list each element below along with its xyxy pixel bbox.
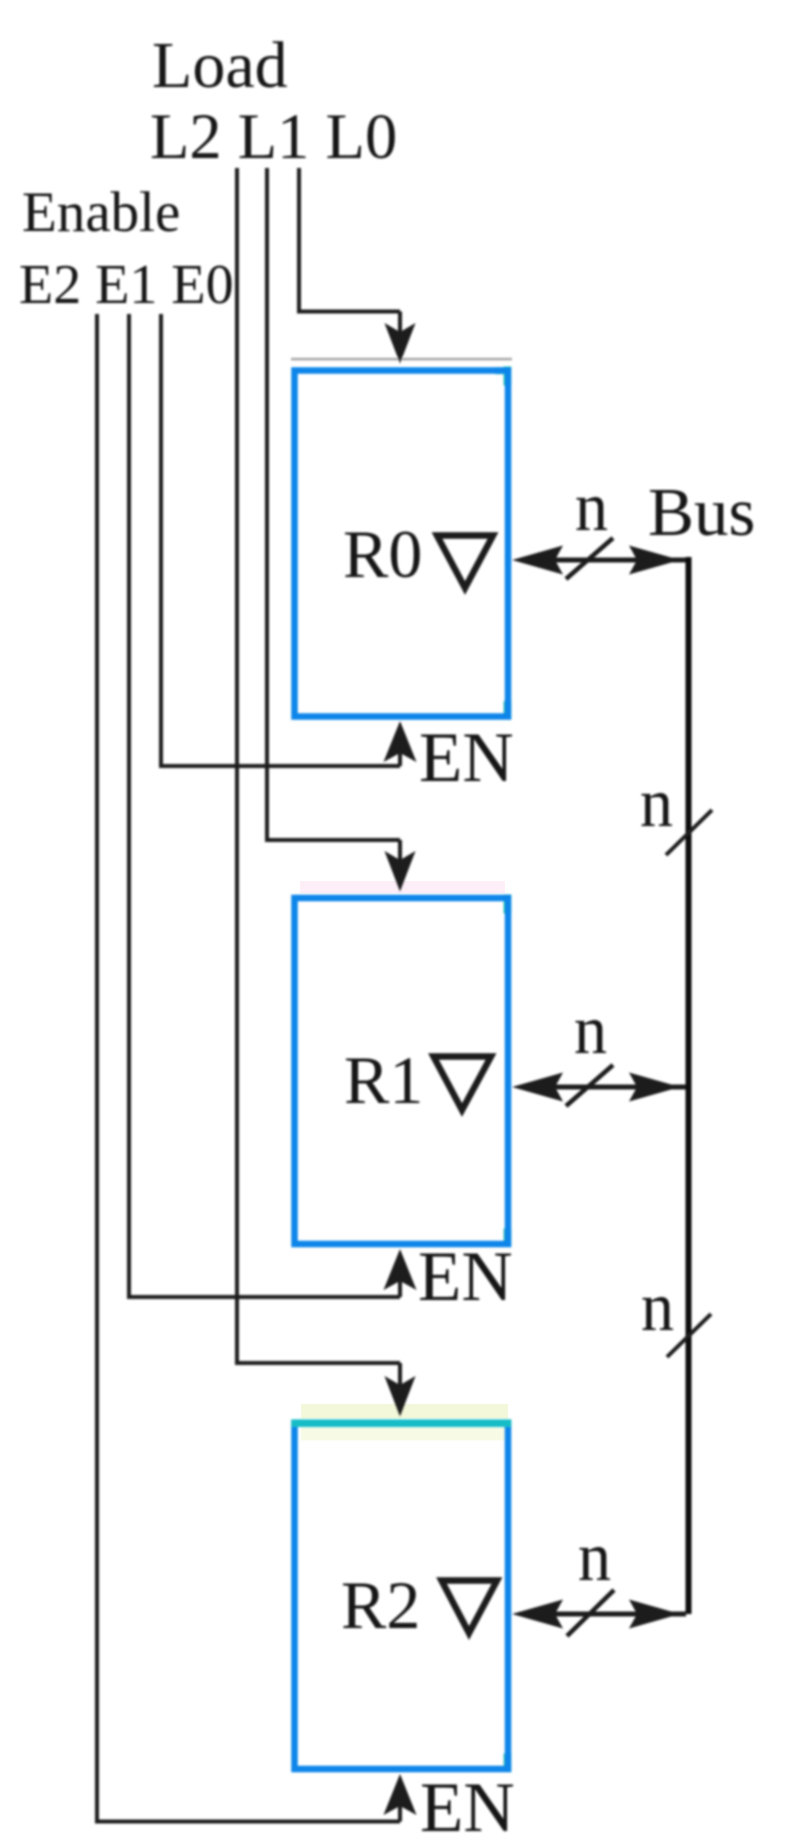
register R2 top border cyan (291, 1419, 511, 1427)
bus vertical line (686, 557, 692, 1614)
svg-text:Bus: Bus (648, 474, 755, 550)
arrow into R2 load (385, 1376, 416, 1417)
R2 bus double arrow shaft (548, 1612, 686, 1617)
arrow into R0 load (385, 323, 416, 364)
R0 bus slash (566, 538, 613, 579)
register R0 box (295, 371, 509, 717)
svg-text:n: n (575, 469, 608, 546)
arrow into R2 EN (384, 1774, 417, 1815)
svg-text:Enable: Enable (22, 181, 180, 244)
R2 bus arrow left head (512, 1600, 563, 1629)
bus slash between R0 and R1 (666, 810, 712, 855)
arrow into R0 EN (384, 721, 417, 762)
arrow into R1 load (385, 851, 416, 892)
svg-text:EN: EN (419, 719, 514, 797)
register R2 triangle (442, 1581, 498, 1634)
R2 bus arrow right head (629, 1600, 680, 1629)
svg-text:R2: R2 (341, 1567, 420, 1643)
R0 bus arrow right head (629, 546, 680, 575)
wire L1 (267, 168, 400, 868)
register R2 box (295, 1423, 509, 1769)
R0 bus arrow left head (512, 546, 563, 575)
svg-text:E2 E1 E0: E2 E1 E0 (19, 254, 234, 316)
R1 bus double arrow shaft (548, 1085, 686, 1090)
wire L0 (299, 168, 400, 340)
svg-text:R0: R0 (343, 516, 422, 592)
svg-text:n: n (578, 1519, 611, 1596)
register R1 triangle (434, 1057, 492, 1111)
artifact yellow band above R2 top border (301, 1404, 508, 1419)
artifact pink band above R1 top border (300, 881, 505, 893)
svg-text:n: n (574, 992, 607, 1069)
artifact teal corner bottom-right R1 (504, 1229, 512, 1248)
wire L2 (237, 168, 400, 1392)
wire E2 (97, 314, 400, 1822)
artifact teal corner top-right R0 (504, 367, 512, 386)
bus slash between R1 and R2 (667, 1314, 711, 1357)
artifact gray ghost line above R0 (291, 358, 512, 361)
svg-text:EN: EN (420, 1769, 515, 1837)
svg-text:n: n (640, 765, 673, 842)
artifact yellow band below R2 top border (301, 1428, 505, 1441)
R0 bus double arrow shaft (548, 558, 686, 563)
svg-text:L2 L1 L0: L2 L1 L0 (150, 101, 397, 172)
R1 bus arrow right head (629, 1073, 680, 1102)
R1 bus arrow left head (512, 1073, 563, 1102)
wire E0 (161, 314, 400, 766)
arrow into R1 EN (384, 1249, 417, 1290)
svg-text:R1: R1 (344, 1042, 423, 1118)
R1 bus slash (566, 1065, 613, 1106)
wire E1 (129, 314, 400, 1297)
svg-text:EN: EN (418, 1238, 513, 1316)
register R1 box (295, 898, 509, 1244)
artifact teal corner top-right R1 (504, 895, 512, 914)
register R0 triangle (437, 536, 493, 589)
artifact teal corner bottom-right R0 (504, 701, 512, 720)
svg-text:n: n (641, 1269, 674, 1346)
R2 bus slash (567, 1590, 614, 1636)
artifact teal corner bottom-right R2 (504, 1754, 512, 1773)
svg-text:Load: Load (152, 29, 288, 102)
